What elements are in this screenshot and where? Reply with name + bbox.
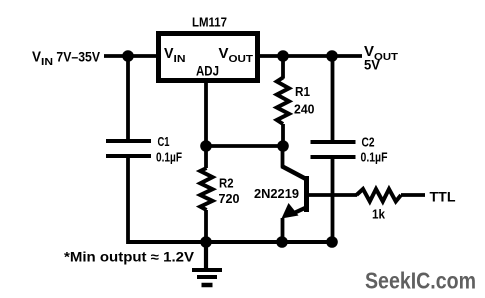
collector wire — [281, 146, 285, 167]
svg-text:ADJ: ADJ — [196, 64, 219, 79]
node: C2 top junction — [326, 50, 338, 62]
capacitor C1 bottom plate — [106, 154, 151, 158]
wire: C1 branch upper — [126, 56, 130, 141]
svg-text:R1: R1 — [295, 84, 310, 99]
emitter wire with arrow — [293, 208, 306, 214]
base bar — [304, 176, 309, 212]
node: input junction — [122, 50, 134, 62]
wire: output rail from regulator to VOUT label — [258, 54, 362, 58]
svg-text:LM117: LM117 — [192, 15, 227, 30]
svg-text:240: 240 — [294, 102, 315, 117]
wire: C1 branch lower — [126, 156, 130, 244]
svg-text:TTL: TTL — [430, 189, 456, 205]
svg-text:1k: 1k — [372, 207, 386, 222]
svg-text:R2: R2 — [219, 176, 234, 191]
wire: ground rail — [128, 240, 333, 244]
transistor Q1 2N2219 — [282, 146, 307, 242]
svg-text:2N2219: 2N2219 — [254, 186, 299, 201]
wire: ADJ to collector node — [206, 144, 283, 148]
wire: C2 branch upper — [331, 56, 335, 142]
node: R2 bottom junction — [200, 236, 212, 248]
svg-text:5V: 5V — [364, 58, 380, 73]
svg-text:0.1µF: 0.1µF — [361, 151, 388, 165]
svg-text:C1: C1 — [158, 135, 170, 149]
node: emitter junction — [276, 236, 288, 248]
node: ADJ junction — [200, 140, 212, 152]
node: C2 bottom junction — [326, 236, 338, 248]
svg-text:720: 720 — [219, 191, 240, 206]
node: R1 bottom / collector junction — [277, 140, 289, 152]
resistor R3 1k — [357, 189, 426, 201]
wire: base to 1k resistor — [308, 193, 357, 197]
capacitor C1 top plate — [106, 139, 151, 143]
svg-text:SeekIC.com: SeekIC.com — [365, 268, 476, 294]
wire: input rail from VIN label to regulator — [104, 54, 158, 58]
capacitor C2 bottom plate — [311, 155, 356, 159]
wire: ADJ pin down — [204, 81, 208, 146]
wire: C2 branch lower — [331, 157, 335, 244]
op-amp U1 LM117 regulator box — [159, 34, 258, 81]
resistor R1 — [277, 56, 289, 146]
node: R1 top junction — [277, 50, 289, 62]
capacitor C2 top plate — [311, 140, 356, 144]
svg-text:0.1µF: 0.1µF — [156, 151, 182, 165]
resistor R2 — [200, 146, 212, 242]
svg-text:C2: C2 — [362, 136, 375, 150]
svg-text:*Min output ≈ 1.2V: *Min output ≈ 1.2V — [64, 250, 194, 265]
ground — [192, 242, 222, 285]
